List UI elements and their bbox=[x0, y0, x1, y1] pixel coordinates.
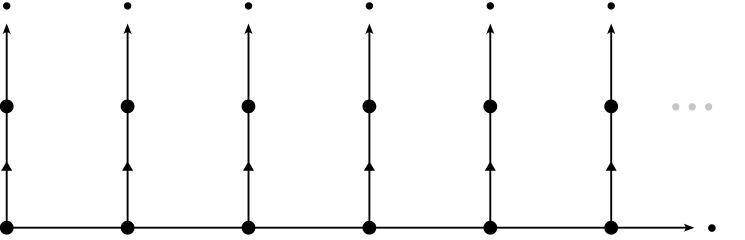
node: terminal small dot right of axis bbox=[708, 224, 716, 232]
node: middle dot column 5 bbox=[483, 100, 497, 114]
arrowhead: top of column 3 bbox=[244, 24, 252, 35]
node: top small dot column 4 bbox=[366, 2, 373, 9]
node: middle dot column 6 bbox=[604, 100, 618, 114]
node: top small dot column 2 bbox=[124, 2, 131, 9]
node: bottom dot column 2 bbox=[121, 221, 135, 235]
mid-arrow: column 1 bbox=[1, 161, 12, 170]
arrowhead: top of column 4 bbox=[365, 24, 373, 35]
node: bottom dot column 5 bbox=[483, 221, 497, 235]
wire: horizontal axis arrow bbox=[7, 227, 688, 229]
arrowhead: top of column 2 bbox=[124, 24, 132, 35]
wire: vertical arrow column 5 bbox=[489, 27, 491, 228]
wire: vertical arrow column 6 bbox=[610, 27, 612, 228]
ellipsis dot 1 (gray) bbox=[672, 103, 679, 110]
node: top small dot column 5 bbox=[487, 2, 494, 9]
wire: vertical arrow column 2 bbox=[127, 27, 129, 228]
mid-arrow: column 6 bbox=[606, 161, 617, 170]
node: middle dot column 3 bbox=[242, 100, 256, 114]
node: middle dot column 4 bbox=[363, 100, 377, 114]
mid-arrow: column 4 bbox=[364, 161, 375, 170]
node: top small dot column 1 bbox=[3, 2, 10, 9]
arrowhead: top of column 5 bbox=[486, 24, 494, 35]
wire: vertical arrow column 1 bbox=[6, 27, 8, 228]
arrowhead: top of column 6 bbox=[607, 24, 615, 35]
ellipsis dot 2 (gray) bbox=[689, 103, 696, 110]
mid-arrow: column 3 bbox=[243, 161, 254, 170]
node: middle dot column 1 bbox=[0, 100, 14, 114]
wire: vertical arrow column 4 bbox=[368, 27, 370, 228]
arrowhead: top of column 1 bbox=[3, 24, 11, 35]
node: bottom dot column 6 bbox=[604, 221, 618, 235]
wire: vertical arrow column 3 bbox=[248, 27, 250, 228]
arrowhead: right end of horizontal axis bbox=[684, 224, 695, 232]
node: top small dot column 3 bbox=[245, 2, 252, 9]
node: bottom dot column 1 bbox=[0, 221, 14, 235]
ellipsis dot 3 (gray) bbox=[705, 103, 712, 110]
node: bottom dot column 4 bbox=[363, 221, 377, 235]
mid-arrow: column 5 bbox=[485, 161, 496, 170]
node: top small dot column 6 bbox=[608, 2, 615, 9]
node: middle dot column 2 bbox=[121, 100, 135, 114]
node: bottom dot column 3 bbox=[242, 221, 256, 235]
mid-arrow: column 2 bbox=[122, 161, 133, 170]
